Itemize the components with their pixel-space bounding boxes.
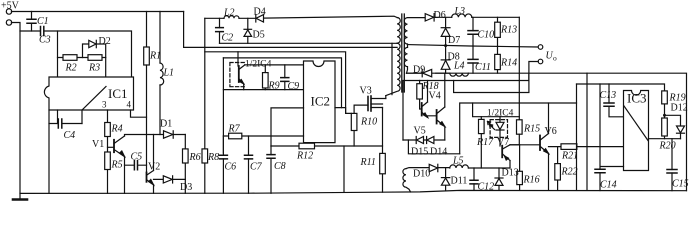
capacitor C13: [604, 103, 614, 106]
diode D1: [164, 131, 173, 138]
wire Uo- to lower rail: [529, 62, 538, 81]
wire IC1 pin3 to R4: [107, 110, 109, 152]
svg-text:R5: R5: [111, 160, 123, 171]
svg-text:C15: C15: [672, 179, 689, 190]
capacitor C2: [216, 28, 224, 32]
svg-text:R22: R22: [561, 167, 578, 178]
svg-text:C12: C12: [478, 182, 495, 193]
wire staircase to feedback: [454, 73, 529, 92]
inductor L1: [160, 63, 164, 85]
resistor R7: [229, 133, 242, 139]
capacitor C11: [468, 59, 478, 63]
svg-text:R10: R10: [360, 117, 377, 128]
svg-text:R6: R6: [189, 152, 201, 163]
transistor V7: [501, 146, 503, 158]
svg-text:o: o: [553, 54, 557, 63]
transformer secondary winding lower: [404, 47, 407, 73]
wire R2 R3 row: [58, 57, 106, 59]
svg-text:R12: R12: [296, 151, 313, 162]
wire C11 vertical: [472, 46, 474, 73]
capacitor C8: [267, 155, 275, 159]
svg-text:R16: R16: [523, 175, 540, 186]
svg-text:D10: D10: [413, 169, 430, 180]
resistor R10: [351, 113, 357, 130]
node +5V terminal top: [6, 9, 11, 14]
wire V4 box top rail: [403, 81, 529, 141]
svg-text:R14: R14: [500, 58, 517, 69]
svg-text:V6: V6: [545, 126, 557, 137]
IC3: [624, 91, 649, 171]
transformer core: [402, 14, 405, 92]
svg-text:D13: D13: [502, 168, 519, 179]
wire ground rail: [20, 190, 687, 193]
svg-text:D5: D5: [253, 30, 265, 41]
diode D5: [244, 30, 252, 37]
transistor V2: [146, 173, 148, 182]
resistor R5: [105, 152, 111, 170]
diode D3: [163, 176, 172, 183]
wire V5 emitter down: [444, 127, 446, 141]
svg-text:D4: D4: [254, 7, 266, 18]
ground: [13, 198, 27, 201]
wire C12 vertical: [473, 168, 475, 190]
node Uo- terminal: [538, 59, 543, 64]
wire opto box bottom to IC2: [223, 89, 303, 91]
svg-text:R11: R11: [360, 157, 376, 168]
wire R9 C9 row to IC2: [245, 64, 304, 66]
wire R14 vertical: [497, 46, 499, 73]
resistor R1: [144, 47, 150, 65]
wire IC1 pin to C4: [57, 110, 59, 124]
wire R17 vertical: [480, 117, 482, 168]
diode D2: [89, 40, 96, 47]
resistor R16: [517, 171, 523, 184]
svg-text:R1: R1: [149, 51, 161, 62]
wire V1 collector up: [124, 135, 126, 137]
wire +5V rail drop and run right: [184, 12, 398, 48]
transistor V5: [436, 110, 438, 124]
resistor R21: [561, 144, 577, 150]
wire C4 row: [49, 123, 82, 125]
svg-text:R21: R21: [561, 151, 578, 162]
svg-text:R8: R8: [207, 152, 219, 163]
wire R8 vertical from L2 node: [204, 18, 206, 193]
svg-text:R2: R2: [65, 63, 77, 74]
wire C14 vertical and jog: [600, 84, 624, 191]
wire R19 vertical: [665, 104, 681, 126]
wire V4 collector: [427, 81, 429, 103]
svg-text:D2: D2: [99, 36, 111, 47]
capacitor C4: [58, 119, 62, 128]
diode D10: [429, 164, 437, 171]
svg-text:D6: D6: [434, 10, 446, 21]
transformer T primary winding lower: [386, 43, 400, 95]
wire L2 D4 row: [205, 16, 397, 18]
svg-text:V3: V3: [360, 86, 372, 97]
svg-text:V7: V7: [497, 137, 509, 148]
svg-text:C9: C9: [288, 81, 300, 92]
capacitor C14: [595, 169, 605, 173]
diode D13: [495, 178, 503, 185]
transistor V4: [421, 103, 423, 116]
svg-text:D12: D12: [671, 103, 688, 114]
transistor V3 mosfet: [367, 97, 369, 111]
svg-text:V5: V5: [414, 126, 426, 137]
svg-text:R9: R9: [268, 81, 280, 92]
wire R22 vertical: [557, 147, 559, 191]
resistor R18: [417, 84, 423, 99]
wire C8 vertical: [270, 146, 272, 193]
wire terminal2 to ground drop: [11, 23, 20, 199]
node junction dot: [663, 114, 666, 117]
wire D8 branch: [445, 46, 447, 74]
optocoupler 1/2IC4 phototransistor: [230, 63, 246, 87]
wire C3 row: [20, 31, 132, 77]
svg-text:L2: L2: [223, 8, 235, 19]
wire V6 collector up: [548, 103, 550, 134]
wire IC1 pin x82: [81, 110, 83, 124]
wire V5 collector to rail: [444, 73, 446, 107]
wire C6 vertical: [222, 136, 224, 193]
wire R15 feedback vertical from top: [518, 17, 520, 120]
svg-text:D1: D1: [160, 119, 172, 130]
svg-text:R17: R17: [476, 137, 494, 148]
svg-text:L5: L5: [452, 156, 464, 167]
diode D7: [441, 28, 450, 36]
svg-text:R15: R15: [523, 124, 540, 135]
wire C13 R19 top row: [577, 84, 665, 91]
wire C2 D5 bottom rail to transformer: [220, 42, 398, 44]
svg-text:IC3: IC3: [627, 91, 647, 106]
svg-text:IC1: IC1: [108, 86, 128, 101]
resistor R13: [495, 22, 501, 37]
diode D8: [441, 60, 450, 69]
wire right frame vertical x576: [576, 84, 578, 190]
svg-text:1/2IC4: 1/2IC4: [487, 109, 514, 119]
svg-text:L4: L4: [453, 61, 465, 72]
wire D5 branch: [247, 18, 249, 43]
svg-text:R13: R13: [500, 25, 517, 36]
svg-text:D3: D3: [180, 182, 192, 193]
transistor V1: [113, 140, 115, 152]
svg-text:IC2: IC2: [311, 94, 331, 109]
svg-text:V2: V2: [148, 162, 160, 173]
wire V1 emitter down to ground: [124, 157, 126, 194]
wire R13 vertical: [497, 17, 499, 46]
transformer secondary winding upper: [404, 18, 425, 48]
wire C10 vertical: [472, 18, 474, 47]
wire D2 branch: [83, 44, 106, 77]
svg-text:C7: C7: [250, 162, 263, 173]
svg-text:4: 4: [127, 100, 132, 110]
capacitor C5: [134, 161, 137, 170]
inductor L4: [450, 73, 469, 76]
wire L5 to V7 emitter: [468, 167, 510, 169]
svg-text:C13: C13: [600, 90, 617, 101]
wire L1 vertical: [159, 12, 161, 135]
svg-text:C10: C10: [478, 30, 495, 41]
optocoupler 1/2IC4 led: [490, 120, 507, 138]
svg-text:L1: L1: [163, 68, 175, 79]
wire box bottom row: [408, 140, 459, 154]
wire D12 bottom: [680, 133, 682, 139]
resistor R8: [202, 149, 208, 163]
svg-text:D11: D11: [451, 176, 468, 187]
svg-text:C4: C4: [64, 130, 76, 141]
wire C9 vertical: [284, 65, 286, 90]
svg-text:3: 3: [102, 100, 107, 110]
svg-text:D7: D7: [448, 35, 460, 46]
wire secondary center tap: [408, 45, 539, 47]
wire IC2 upper rail a: [205, 52, 346, 114]
wire left vertical to R2 row and IC1: [57, 31, 59, 77]
wire C13 vertical: [609, 84, 624, 117]
svg-text:C11: C11: [475, 62, 491, 73]
resistor R11: [380, 153, 386, 173]
svg-text:R20: R20: [659, 141, 676, 152]
wire R1 bottom to pin4 row: [146, 65, 148, 117]
wire V2 collector up to D1 row: [153, 135, 155, 171]
wire V2 emitter to ground: [153, 185, 155, 194]
resistor R3: [88, 55, 102, 61]
wire C5 row: [125, 164, 147, 166]
diode D12: [677, 126, 685, 133]
wire 1/2IC4 box left and top: [460, 103, 577, 154]
inductor L3: [452, 14, 472, 17]
svg-text:D9: D9: [413, 65, 425, 76]
winding aux: [403, 169, 411, 192]
resistor R4: [105, 123, 111, 137]
wire V3 source to R11: [382, 108, 384, 193]
svg-text:V4: V4: [429, 91, 441, 102]
wire x587 rail to ground: [586, 73, 588, 190]
capacitor C6: [219, 155, 227, 159]
wire R20 vertical: [664, 136, 666, 139]
wire D13 branch: [498, 168, 500, 190]
wire D3 row: [154, 178, 186, 180]
svg-text:C6: C6: [225, 162, 237, 173]
wire V7 collector: [510, 144, 520, 146]
wire R18 vertical: [420, 81, 422, 110]
wire +5V top rail: [11, 11, 183, 13]
wire D1 row: [126, 134, 186, 136]
wire snubber to drain vertical: [391, 43, 393, 94]
wire C1 branch vertical: [31, 12, 33, 32]
transformer T primary winding upper: [397, 18, 400, 44]
svg-text:C3: C3: [39, 35, 51, 46]
wire D15 D14 row: [403, 139, 445, 141]
diode D4: [256, 15, 264, 22]
capacitor C1: [27, 19, 36, 23]
svg-text:C8: C8: [274, 161, 286, 172]
resistor R9: [263, 73, 269, 88]
svg-text:C2: C2: [222, 33, 234, 44]
inductor L5: [450, 165, 469, 168]
capacitor C9: [281, 78, 289, 82]
resistor R20: [662, 118, 668, 136]
IC2: [304, 61, 336, 143]
svg-text:D15: D15: [411, 147, 428, 158]
wire C7 vertical: [248, 136, 250, 193]
svg-text:+5V: +5V: [1, 1, 20, 12]
diode D11: [441, 178, 449, 185]
wire R16 vertical: [519, 145, 521, 190]
wire x344 drop to ground: [343, 146, 345, 192]
node terminal 2: [6, 20, 11, 25]
wire feedback mid row: [473, 103, 520, 117]
wire V4 emitter to V5 base: [428, 116, 437, 118]
wire D6 to L3: [434, 16, 452, 18]
node junction dot D7 D8: [444, 44, 447, 47]
svg-text:1/2IC4: 1/2IC4: [245, 60, 272, 70]
svg-text:R7: R7: [228, 124, 241, 135]
wire L3 to R13 and feedback tap: [472, 16, 520, 18]
wire R21 row: [549, 146, 624, 148]
wire opto box top rail b: [223, 58, 341, 108]
wire IC2 pin row x271: [271, 108, 304, 146]
wire D9 L4 segment: [407, 72, 450, 74]
capacitor C12: [470, 180, 478, 184]
resistor R19: [662, 91, 668, 104]
wire IC1 pin4 jog: [131, 110, 147, 173]
diode D6: [425, 14, 434, 21]
svg-text:R3: R3: [88, 63, 100, 74]
diode D15: [417, 137, 424, 144]
inductor L2: [224, 16, 239, 19]
wire R9 vertical: [264, 65, 266, 90]
resistor R15: [517, 120, 523, 134]
wire R1 vertical (pin4 net): [146, 12, 148, 48]
wire V1 base: [108, 146, 115, 148]
resistor R12: [299, 143, 315, 149]
wire V6 emitter down: [548, 154, 550, 191]
capacitor C3: [41, 27, 44, 36]
wire R12 row: [271, 145, 383, 147]
transistor V6: [539, 136, 541, 151]
wire R5 to ground: [107, 170, 109, 194]
IC1: [44, 77, 133, 110]
wire R6 vertical: [184, 135, 186, 194]
svg-text:V1: V1: [92, 139, 104, 150]
resistor R2: [63, 55, 77, 61]
diode D9: [423, 69, 432, 76]
resistor R22: [555, 164, 561, 180]
wire R7 row: [223, 135, 303, 137]
wire C2 branch: [219, 18, 221, 43]
svg-text:D14: D14: [430, 147, 447, 158]
svg-text:C14: C14: [600, 180, 617, 191]
wire V7 emitter down: [509, 161, 511, 169]
svg-text:R4: R4: [111, 124, 123, 135]
wire IC2 to R10: [335, 108, 354, 146]
node Uo+ terminal: [538, 45, 543, 50]
resistor R14: [495, 54, 501, 69]
resistor R6: [183, 149, 189, 163]
wire D7 branch: [445, 18, 447, 46]
wire lower secondary rail: [407, 73, 687, 191]
wire aux winding to D10: [406, 168, 450, 169]
wire V3 drain to transformer: [385, 96, 387, 99]
wire IC2 to V3 gate: [354, 105, 368, 113]
wire opto box left vertical: [222, 58, 224, 153]
wire C15 vertical: [671, 139, 673, 191]
svg-text:C5: C5: [131, 152, 143, 163]
wire IC1 pin bottom-left corner to ground: [48, 110, 50, 193]
svg-text:L3: L3: [454, 6, 466, 17]
capacitor C15: [667, 170, 677, 174]
capacitor C10: [468, 31, 478, 35]
wire D11 branch: [445, 168, 447, 191]
svg-text:C1: C1: [37, 16, 49, 27]
capacitor C7: [245, 155, 253, 159]
wire R20 D12 bottom row: [649, 138, 681, 140]
wire R15 to V6 base row: [510, 134, 540, 145]
resistor R17: [479, 119, 485, 133]
diode D14: [427, 137, 434, 144]
